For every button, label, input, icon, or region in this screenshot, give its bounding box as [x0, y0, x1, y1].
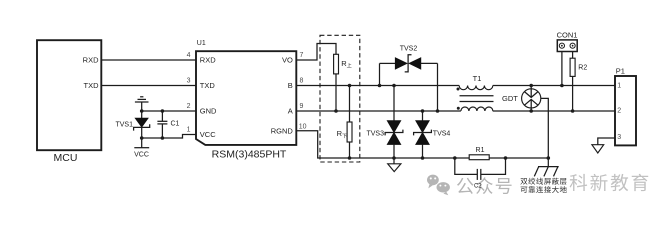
P1 pin number 1: [617, 83, 621, 90]
svg-text:TVS2: TVS2: [400, 45, 418, 52]
pin number 7: [300, 52, 304, 59]
label TVS4: [433, 131, 451, 138]
pin number 8: [300, 78, 304, 85]
svg-text:RXD: RXD: [200, 56, 216, 65]
U1 pin name B: [288, 81, 293, 90]
svg-text:C2: C2: [474, 184, 482, 190]
svg-text:VO: VO: [282, 56, 293, 65]
label R1: [476, 147, 485, 154]
wire R2 to A: [571, 76, 575, 112]
pin number 4: [187, 52, 191, 59]
label CON1: [557, 31, 578, 40]
svg-text:U1: U1: [197, 40, 206, 47]
svg-text:4: 4: [187, 52, 191, 59]
label U1: [197, 40, 206, 47]
svg-text:GDT: GDT: [502, 94, 518, 103]
TVS diode TVS2 (bidirectional): [378, 55, 440, 113]
label R2: [578, 64, 587, 71]
svg-text:1: 1: [617, 83, 621, 90]
wire B to R下: [348, 84, 352, 122]
TVS diode TVS4 (bidirectional): [414, 109, 432, 160]
MCU pin label RXD: [83, 56, 99, 65]
label GDT: [502, 94, 518, 103]
svg-text:8: 8: [300, 78, 304, 85]
TVS diode TVS1: [134, 111, 150, 138]
svg-text:1: 1: [187, 127, 191, 134]
pin number 9: [300, 103, 304, 110]
wire GND net (pin 2): [140, 109, 196, 113]
svg-text:2: 2: [617, 108, 621, 115]
op-amp/transceiver U1 body: [196, 51, 296, 145]
pin number 2: [187, 103, 191, 110]
capacitor C1: [157, 111, 167, 138]
pin number 10: [299, 124, 307, 131]
wire VO net (pin 7): [296, 44, 336, 61]
ground (open triangle below TVS3): [388, 158, 401, 172]
svg-text:R: R: [337, 129, 343, 138]
wire CON1 pin to R2: [572, 52, 574, 59]
U1 pin name VCC: [200, 130, 216, 139]
wire P1 pin 3 to ground: [598, 138, 615, 145]
resistor R上: [334, 54, 339, 74]
label TVS3: [366, 131, 384, 138]
svg-text:MCU: MCU: [54, 152, 78, 164]
note text line 1: [520, 178, 566, 185]
svg-text:VCC: VCC: [134, 151, 149, 158]
svg-text:VCC: VCC: [200, 130, 216, 139]
svg-text:TVS3: TVS3: [366, 131, 384, 138]
label TVS2: [400, 45, 418, 52]
svg-text:CON1: CON1: [557, 31, 578, 40]
svg-text:RXD: RXD: [83, 56, 99, 65]
svg-text:B: B: [288, 81, 293, 90]
wire RXD net: [101, 59, 196, 61]
ground (earth, above TVS1): [135, 97, 149, 111]
label T1: [473, 74, 482, 83]
wire RGND net (pin 10): [296, 131, 455, 158]
svg-text:2: 2: [187, 103, 191, 110]
label P1: [616, 67, 625, 76]
U1 pin name TXD: [200, 81, 216, 90]
note text line 2: [521, 186, 567, 193]
svg-text:R: R: [341, 59, 347, 68]
connector CON1: [557, 40, 577, 52]
svg-text:P1: P1: [616, 67, 625, 76]
wire R上 to A line: [334, 74, 338, 113]
capacitor C2: [455, 158, 506, 180]
transformer T1 (common-mode choke): [457, 86, 494, 112]
svg-text:9: 9: [300, 103, 304, 110]
svg-text:TVS4: TVS4: [433, 131, 451, 138]
label R上: [341, 59, 351, 68]
wire rail mid: [506, 157, 549, 159]
svg-text:R2: R2: [578, 64, 587, 71]
svg-text:R1: R1: [476, 147, 485, 154]
svg-text:10: 10: [299, 124, 307, 131]
P1 pin number 3: [617, 134, 621, 141]
ground (open triangle at P1.3): [592, 145, 604, 153]
power VCC symbol: [134, 138, 149, 158]
resistor R1: [453, 155, 507, 160]
resistor R下: [347, 122, 352, 142]
TVS diode TVS3 (bidirectional): [385, 84, 403, 160]
U1 pin name RGND: [271, 127, 294, 136]
U1 pin name A: [288, 107, 293, 116]
svg-text:TVS1: TVS1: [115, 121, 133, 128]
watermark text 公众号: [457, 177, 512, 194]
wire B line: [296, 85, 615, 87]
dashed option box: [320, 35, 360, 162]
MCU block: [37, 40, 101, 164]
connector P1 body: [615, 76, 636, 145]
wire CON1 pin to B: [560, 52, 564, 88]
svg-text:A: A: [288, 107, 293, 116]
svg-text:GND: GND: [200, 107, 217, 116]
wire TXD net: [101, 85, 196, 87]
svg-text:RGND: RGND: [271, 127, 294, 136]
pin number 1: [187, 127, 191, 134]
svg-text:C1: C1: [171, 120, 180, 127]
svg-text:TXD: TXD: [84, 81, 100, 90]
svg-text:7: 7: [300, 52, 304, 59]
U1 pin name RXD: [200, 56, 216, 65]
wire VCC net to pin 1: [140, 135, 196, 140]
P1 pin number 2: [617, 108, 621, 115]
wire GDT to rail: [541, 98, 550, 159]
svg-text:TXD: TXD: [200, 81, 216, 90]
svg-text:T1: T1: [473, 74, 482, 83]
U1 pin name VO: [282, 56, 293, 65]
resistor R2: [570, 58, 575, 76]
wire A line: [296, 110, 615, 112]
svg-text:3: 3: [617, 134, 621, 141]
gas discharge tube GDT: [522, 84, 541, 113]
MCU pin label TXD: [84, 81, 100, 90]
label TVS1: [115, 121, 133, 128]
label C2: [474, 184, 482, 190]
watermark WeChat icon: [427, 175, 450, 196]
svg-text:RSM(3)485PHT: RSM(3)485PHT: [212, 149, 287, 161]
label C1: [171, 120, 180, 127]
U1 pin name GND: [200, 107, 217, 116]
svg-text:3: 3: [187, 78, 191, 85]
wire R下 to RGND rail: [348, 142, 352, 160]
label R下: [337, 129, 347, 138]
pin number 3: [187, 78, 191, 85]
label RSM(3)485PHT: [212, 149, 287, 161]
watermark text 科新教育: [570, 174, 649, 191]
ground (chassis, shield): [534, 158, 558, 176]
